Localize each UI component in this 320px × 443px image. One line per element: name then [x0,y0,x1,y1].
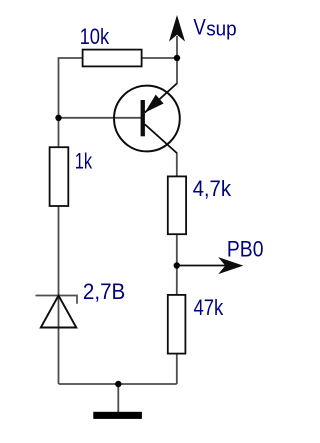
transistor PNP Q1 [114,84,180,154]
wire 47k resistor to bottom rail [176,354,178,385]
wire collector to 4,7k resistor [176,153,178,178]
zener anode triangle [41,296,77,328]
wire 4,7k resistor to PB0 node [176,234,178,266]
wire PB0 node to 47k resistor [176,266,178,296]
node PB0 junction [174,262,180,268]
resistor 47k [168,295,186,354]
svg-text:47k: 47k [194,295,225,320]
node base junction [55,115,61,121]
transistor emitter arrow (PNP, pointing to base) [145,95,164,113]
svg-text:4,7k: 4,7k [193,176,232,201]
wire top-left corner from left rail to 10k resistor [59,58,83,148]
wire PB0 arrow shaft [177,265,228,267]
power Vsup arrow [169,15,185,42]
resistor 4,7k [168,176,186,234]
svg-text:Vsup: Vsup [193,15,236,41]
wire from 10k resistor to Vsup node [142,57,177,59]
ground [93,412,142,419]
svg-text:PB0: PB0 [227,236,264,261]
node Vsup junction [174,55,180,61]
wire Vsup stem [176,36,178,84]
transistor collector line [145,124,177,153]
wire left rail lower section through zener to bottom [58,206,60,385]
wire base from left rail to transistor [59,117,141,119]
svg-text:1k: 1k [75,148,93,173]
svg-text:10k: 10k [80,24,110,49]
svg-text:2,7B: 2,7B [83,279,125,304]
transistor body circle [114,86,180,152]
zener diode 2,7B [36,296,78,328]
resistor 1k [50,147,69,206]
zener cathode bar with right hook [36,296,78,304]
transistor base bar [141,100,145,136]
wire ground stub [117,384,119,412]
resistor 10k [83,50,142,67]
port PB0 arrow [218,257,243,274]
transistor emitter line [145,84,177,113]
wire bottom rail [59,383,177,385]
node ground junction [115,381,121,387]
